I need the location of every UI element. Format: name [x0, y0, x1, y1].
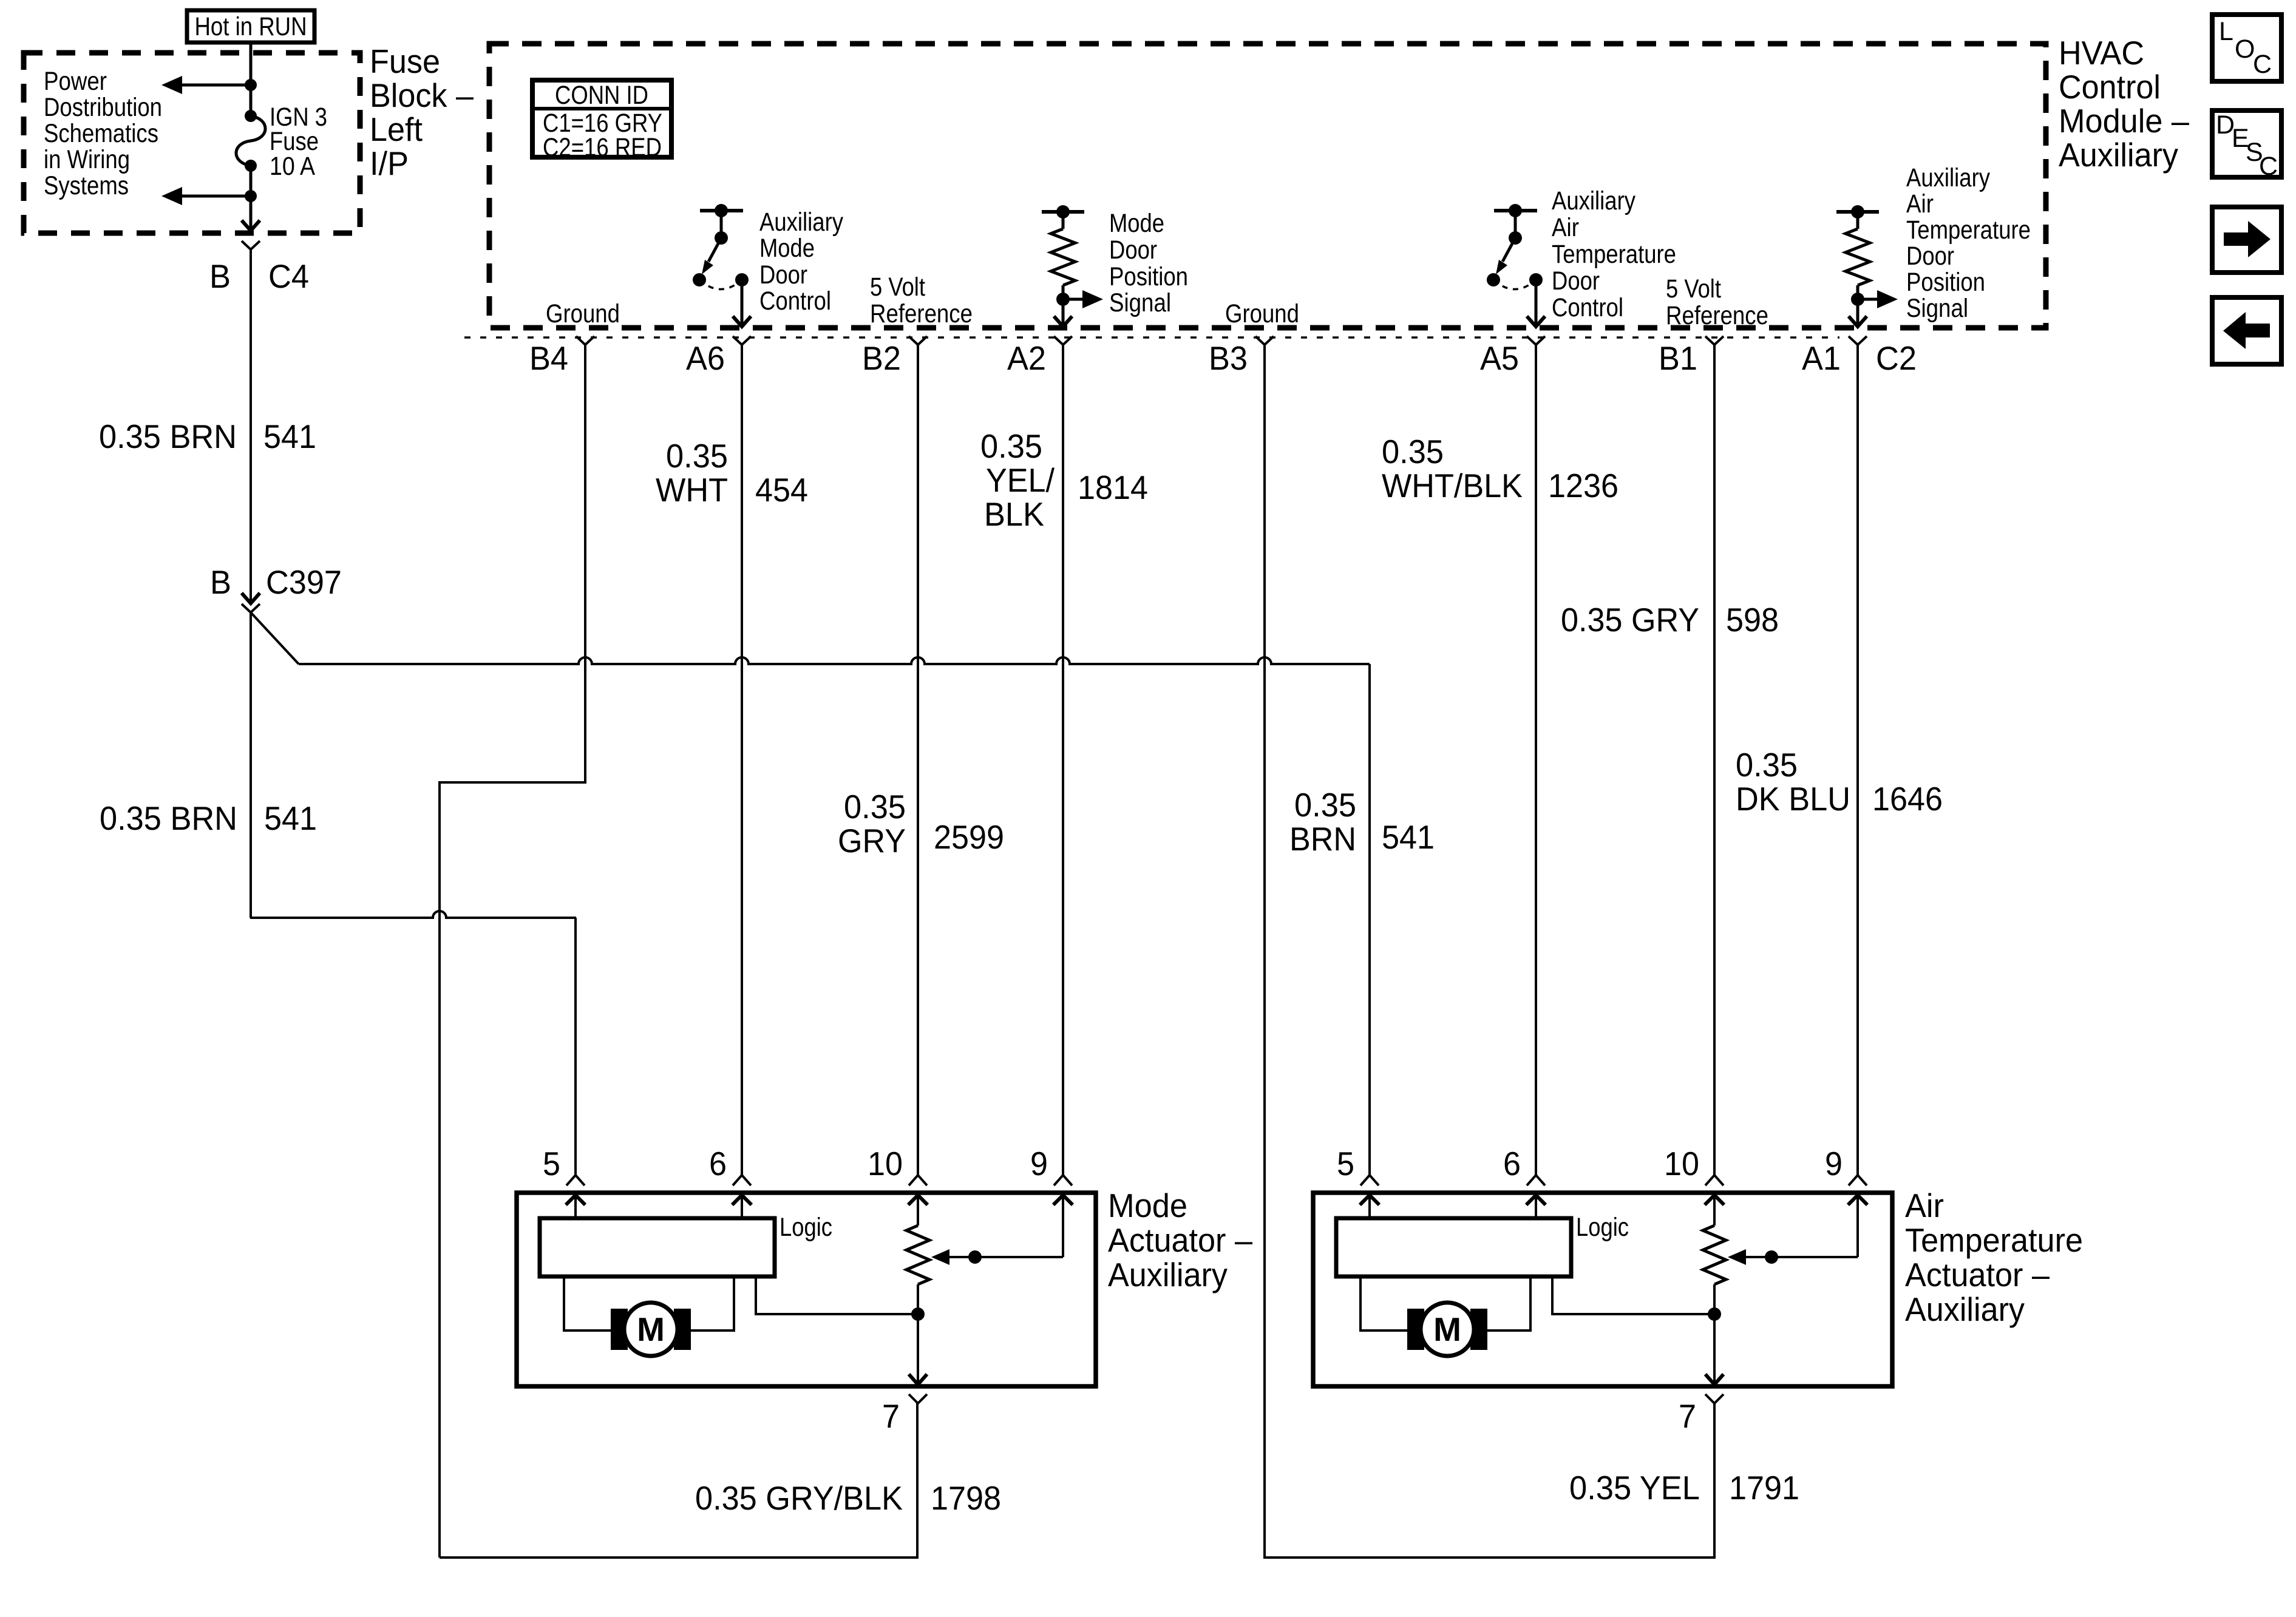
- svg-text:1798: 1798: [931, 1479, 1001, 1517]
- svg-text:Temperature: Temperature: [1905, 1221, 2083, 1259]
- actuator pin 5 fork: [566, 1175, 585, 1185]
- svg-text:5 Volt: 5 Volt: [870, 273, 925, 302]
- svg-text:C4: C4: [268, 257, 309, 295]
- svg-text:M: M: [637, 1310, 665, 1348]
- pin 6 arrow into logic: [732, 1195, 752, 1218]
- label: 0.35 WHT | 454: [656, 437, 808, 509]
- module pin B4 fork: [576, 336, 594, 345]
- svg-text:6: 6: [1503, 1145, 1521, 1182]
- module pin B3 fork: [1255, 336, 1274, 345]
- wire: logic to potentiometer low side: [1552, 1276, 1714, 1314]
- label: 0.35 BRN | 541: [99, 418, 316, 455]
- svg-text:Auxiliary: Auxiliary: [1108, 1256, 1228, 1293]
- logic block: [1336, 1218, 1571, 1276]
- forward arrow icon: [2212, 207, 2281, 273]
- svg-text:HVAC: HVAC: [2059, 34, 2144, 72]
- svg-text:6: 6: [709, 1145, 727, 1182]
- svg-text:5 Volt: 5 Volt: [1666, 274, 1721, 303]
- svg-text:Temperature: Temperature: [1906, 215, 2031, 245]
- pin 7 fork: [909, 1394, 927, 1403]
- logic block: [540, 1218, 775, 1276]
- wire: drop to Mode Actuator pin 5: [574, 918, 577, 1175]
- svg-text:541: 541: [264, 799, 317, 837]
- wire: fuse to fuse block exit: [250, 166, 253, 231]
- svg-text:0.35 BRN: 0.35 BRN: [100, 799, 237, 837]
- svg-text:A5: A5: [1480, 339, 1519, 377]
- module connector line (thin dashed): [464, 336, 1839, 339]
- switch: Auxiliary Mode Door Control: [693, 204, 751, 327]
- actuator pin 5 fork: [1360, 1175, 1379, 1185]
- wire: B1 GRY 598 to Air Temp Actuator pin 10: [1713, 345, 1716, 1175]
- potentiometer resistor: [906, 1225, 929, 1284]
- svg-text:Schematics: Schematics: [44, 119, 158, 148]
- svg-text:Mode: Mode: [1108, 1187, 1187, 1224]
- resistor: Auxiliary Air Temperature Door Position sense: [1836, 205, 1898, 327]
- svg-text:10: 10: [1664, 1145, 1699, 1182]
- svg-text:CONN ID: CONN ID: [555, 81, 648, 110]
- svg-text:B: B: [210, 563, 231, 601]
- label: Auxiliary Mode Door Control: [759, 208, 843, 316]
- svg-text:2599: 2599: [934, 818, 1004, 856]
- svg-text:BLK: BLK: [984, 495, 1044, 533]
- svg-text:GRY: GRY: [838, 822, 906, 859]
- wire: branch arrow to power distribution (lower): [161, 187, 251, 205]
- svg-text:Air: Air: [1552, 213, 1579, 242]
- arrow out of fuse block: [242, 220, 260, 231]
- LOC icon: [2212, 15, 2281, 81]
- svg-text:Logic: Logic: [779, 1213, 832, 1242]
- wire: logic to motor right: [691, 1276, 734, 1331]
- motor M: [611, 1303, 691, 1356]
- actuator pin 6 fork: [733, 1175, 751, 1185]
- label: 0.35 BRN | 541 (right branch): [1289, 786, 1435, 858]
- svg-text:541: 541: [1382, 818, 1435, 856]
- label: Mode Door Position Signal: [1109, 209, 1188, 317]
- svg-text:0.35: 0.35: [1382, 433, 1444, 470]
- svg-text:Air: Air: [1905, 1187, 1944, 1224]
- label: B | C397: [210, 563, 342, 601]
- pin 5 arrow into logic: [566, 1195, 585, 1218]
- module pin B2 fork: [909, 336, 927, 345]
- svg-text:Door: Door: [759, 260, 807, 290]
- svg-text:Door: Door: [1906, 242, 1954, 271]
- svg-text:Module –: Module –: [2059, 102, 2189, 140]
- label: 5 Volt Reference (B2): [870, 273, 973, 328]
- label: 0.35 YEL | 1791: [1569, 1469, 1799, 1507]
- svg-text:Hot in RUN: Hot in RUN: [195, 12, 307, 41]
- svg-text:0.35 BRN: 0.35 BRN: [99, 418, 237, 455]
- svg-text:Systems: Systems: [44, 171, 129, 200]
- svg-text:0.35: 0.35: [666, 437, 728, 475]
- node: lower junction: [245, 190, 257, 202]
- actuator name label: [1108, 1187, 1252, 1293]
- wire: pot bottom to pin 7 arrow: [1705, 1284, 1724, 1385]
- fuse F: IGN 3 Fuse 10 A: [236, 110, 265, 172]
- svg-text:9: 9: [1030, 1145, 1048, 1182]
- Fuse Block dashed box: [24, 53, 360, 233]
- pin 6 arrow into logic: [1526, 1195, 1546, 1218]
- svg-text:Position: Position: [1109, 262, 1188, 291]
- svg-text:Auxiliary: Auxiliary: [1905, 1290, 2025, 1328]
- label: 0.35 YEL/BLK | 1814: [980, 427, 1148, 533]
- svg-text:Auxiliary: Auxiliary: [1552, 186, 1635, 215]
- svg-text:C397: C397: [266, 563, 342, 601]
- switch: Auxiliary Air Temperature Door Control: [1487, 204, 1545, 327]
- pin 9 arrow / wiper: [1053, 1195, 1073, 1257]
- svg-text:Reference: Reference: [870, 299, 973, 328]
- label: IGN 3 Fuse 10 A: [270, 103, 327, 181]
- svg-text:in Wiring: in Wiring: [44, 145, 130, 174]
- actuator pin 9 fork: [1054, 1175, 1072, 1185]
- actuator box: [1313, 1193, 1892, 1386]
- wire: logic to motor left: [564, 1276, 611, 1331]
- svg-text:A6: A6: [686, 339, 725, 377]
- node: pot low junction: [1708, 1307, 1721, 1321]
- svg-text:I/P: I/P: [370, 144, 409, 182]
- svg-text:B2: B2: [862, 339, 901, 377]
- back arrow icon: [2212, 297, 2281, 364]
- svg-text:0.35: 0.35: [980, 427, 1042, 465]
- module pin A5 fork: [1527, 336, 1545, 345]
- svg-text:Temperature: Temperature: [1552, 240, 1676, 269]
- wire: logic to motor right: [1487, 1276, 1530, 1331]
- label: Auxiliary Air Temperature Door Control: [1552, 186, 1676, 322]
- svg-text:DK BLU: DK BLU: [1736, 780, 1850, 818]
- svg-text:Power: Power: [44, 67, 107, 96]
- wiper arrow into pot: [931, 1249, 1063, 1265]
- label: 0.35 GRY/BLK | 1798: [695, 1479, 1001, 1517]
- wire: logic to motor left: [1360, 1276, 1407, 1331]
- svg-text:Position: Position: [1906, 268, 1985, 297]
- svg-text:Block –: Block –: [370, 76, 474, 114]
- wire: bottom ground run to Mode Actuator pin 7: [440, 1403, 917, 1558]
- svg-text:A1: A1: [1802, 339, 1841, 377]
- svg-text:541: 541: [263, 418, 316, 455]
- svg-text:Mode: Mode: [759, 234, 815, 263]
- wire: A2 YEL/BLK 1814 to Mode Actuator pin 9: [1062, 345, 1064, 1175]
- svg-text:Ground: Ground: [1225, 299, 1299, 328]
- label: Power Dostribution Schematics in Wiring Systems: [44, 67, 162, 200]
- wire: Hot in RUN feed down to fuse: [250, 42, 253, 116]
- wire: pot bottom to pin 7 arrow: [909, 1284, 927, 1385]
- svg-text:0.35 GRY: 0.35 GRY: [1561, 601, 1699, 639]
- module pin B1 fork: [1705, 336, 1724, 345]
- svg-text:Signal: Signal: [1109, 288, 1171, 317]
- svg-text:Dostribution: Dostribution: [44, 93, 162, 122]
- svg-text:WHT/BLK: WHT/BLK: [1382, 467, 1523, 504]
- svg-text:C2=16 RED: C2=16 RED: [543, 133, 662, 162]
- svg-text:Door: Door: [1109, 236, 1157, 265]
- label: Fuse Block - Left I/P: [370, 42, 474, 182]
- svg-text:9: 9: [1825, 1145, 1843, 1182]
- svg-text:1791: 1791: [1729, 1469, 1799, 1507]
- svg-text:5: 5: [1337, 1145, 1354, 1182]
- actuator pin 10 fork: [1705, 1175, 1724, 1185]
- label: 0.35 DK BLU | 1646: [1736, 746, 1943, 818]
- svg-text:Left: Left: [370, 110, 423, 148]
- svg-text:Actuator –: Actuator –: [1108, 1221, 1252, 1259]
- wire: B2 GRY 2599 to Mode Actuator pin 10: [917, 345, 919, 1175]
- svg-text:Fuse: Fuse: [370, 42, 440, 80]
- svg-text:454: 454: [755, 471, 808, 509]
- module pin A6 fork: [733, 336, 751, 345]
- svg-text:7: 7: [1679, 1397, 1696, 1435]
- label: HVAC Control Module - Auxiliary: [2059, 34, 2189, 174]
- pin 5 arrow into logic: [1360, 1195, 1379, 1218]
- svg-text:C: C: [2259, 152, 2278, 181]
- actuator box: [517, 1193, 1096, 1386]
- svg-text:B3: B3: [1209, 339, 1248, 377]
- svg-text:C: C: [2253, 50, 2272, 79]
- svg-text:0.35: 0.35: [844, 788, 906, 825]
- svg-text:Logic: Logic: [1576, 1213, 1629, 1242]
- wire: ground bus diagonal from C397: [251, 612, 299, 664]
- svg-text:C2: C2: [1876, 339, 1917, 377]
- wiper arrow into pot: [1728, 1249, 1858, 1265]
- svg-text:B1: B1: [1659, 339, 1697, 377]
- wire: BRN 541 below C397: [250, 612, 252, 918]
- pin 10 arrow to potentiometer: [1705, 1195, 1724, 1225]
- wire: drop to Air Temperature Actuator pin 5: [1368, 664, 1371, 1175]
- svg-text:B: B: [209, 257, 231, 295]
- svg-text:0.35 GRY/BLK: 0.35 GRY/BLK: [695, 1479, 903, 1517]
- actuator name label: [1905, 1187, 2083, 1328]
- svg-text:5: 5: [543, 1145, 560, 1182]
- label: 0.35 WHT/BLK | 1236: [1382, 433, 1618, 504]
- actuator pin 10 fork: [909, 1175, 927, 1185]
- svg-text:B4: B4: [529, 339, 568, 377]
- svg-text:Door: Door: [1552, 266, 1600, 296]
- connector C397 arrow + fork: [242, 593, 260, 612]
- Hot in RUN tag box: [187, 10, 314, 42]
- label: 0.35 GRY | 2599: [838, 788, 1004, 859]
- node: upper junction: [245, 79, 257, 91]
- svg-text:0.35 YEL: 0.35 YEL: [1569, 1469, 1700, 1507]
- svg-text:Reference: Reference: [1666, 301, 1768, 330]
- svg-text:1646: 1646: [1872, 780, 1943, 818]
- DESC icon: [2212, 110, 2281, 181]
- potentiometer resistor: [1703, 1225, 1726, 1284]
- svg-text:1236: 1236: [1548, 467, 1618, 504]
- wire: B4 ground down, jog left, down to bottom run: [440, 345, 585, 1558]
- connector C4 fork: [242, 241, 260, 249]
- wire: B3 ground down to bottom run: [1265, 345, 1714, 1558]
- svg-text:10 A: 10 A: [270, 152, 315, 181]
- wire: logic to potentiometer low side: [756, 1276, 918, 1314]
- svg-text:Signal: Signal: [1906, 294, 1968, 323]
- resistor: Mode Door Position sense: [1042, 205, 1103, 327]
- svg-text:0.35: 0.35: [1294, 786, 1356, 824]
- HVAC Control Module dashed box: [489, 44, 2046, 328]
- label: 0.35 BRN | 541 (lower): [100, 799, 317, 837]
- module pin A1 fork: [1849, 336, 1867, 345]
- label: Auxiliary Air Temperature Door Position Signal: [1906, 163, 2031, 323]
- label: B | C4: [209, 257, 309, 295]
- pin 10 arrow to potentiometer: [908, 1195, 928, 1225]
- actuator pin 9 fork: [1849, 1175, 1867, 1185]
- svg-text:WHT: WHT: [656, 471, 728, 509]
- svg-text:Control: Control: [2059, 68, 2161, 106]
- label: 0.35 GRY | 598: [1561, 601, 1779, 639]
- svg-text:Auxiliary: Auxiliary: [1906, 163, 1990, 192]
- wire: C2 DK BLU 1646 to Air Temp Actuator pin 9: [1856, 345, 1859, 1175]
- wire: lower BRN horizontal (hop over B4 drop) to left actuator pin 5: [250, 911, 576, 918]
- motor M: [1407, 1303, 1487, 1356]
- svg-text:1814: 1814: [1078, 469, 1148, 506]
- CONN ID table: [532, 80, 671, 162]
- actuator pin 6 fork: [1527, 1175, 1545, 1185]
- wire: branch arrow to power distribution (upper): [161, 76, 251, 94]
- svg-text:Control: Control: [759, 286, 831, 316]
- svg-text:O: O: [2235, 35, 2255, 64]
- svg-text:10: 10: [868, 1145, 903, 1182]
- svg-text:Air: Air: [1906, 189, 1934, 219]
- pin 9 arrow / wiper: [1848, 1195, 1867, 1257]
- svg-text:Ground: Ground: [546, 299, 620, 328]
- svg-text:YEL/: YEL/: [986, 461, 1055, 499]
- svg-text:Mode: Mode: [1109, 209, 1164, 238]
- svg-text:Control: Control: [1552, 293, 1623, 322]
- label: 5 Volt Reference (B1): [1666, 274, 1768, 330]
- wire: A5 WHT/BLK 1236 to Air Temp Actuator pin 6: [1535, 345, 1537, 1175]
- wire: A6 WHT 454 to Mode Actuator pin 6: [741, 345, 743, 1175]
- svg-text:M: M: [1433, 1310, 1461, 1348]
- module pin A2 fork: [1054, 336, 1072, 345]
- svg-text:BRN: BRN: [1289, 820, 1356, 858]
- pin 7 fork: [1705, 1394, 1724, 1403]
- svg-text:A2: A2: [1007, 339, 1046, 377]
- svg-text:Actuator –: Actuator –: [1905, 1256, 2050, 1293]
- svg-text:Auxiliary: Auxiliary: [759, 208, 843, 237]
- wire: ground bus horizontal (hops over B4,A6,B2,A2,B3) to right actuator pin 5 drop: [299, 657, 1370, 664]
- svg-text:7: 7: [882, 1397, 900, 1435]
- svg-text:598: 598: [1726, 601, 1779, 639]
- node: pot low junction: [911, 1307, 925, 1321]
- svg-text:L: L: [2219, 17, 2233, 46]
- svg-text:Auxiliary: Auxiliary: [2059, 136, 2178, 174]
- svg-text:0.35: 0.35: [1736, 746, 1798, 784]
- wire: 0.35 BRN 541 from C4 to C397: [250, 249, 252, 603]
